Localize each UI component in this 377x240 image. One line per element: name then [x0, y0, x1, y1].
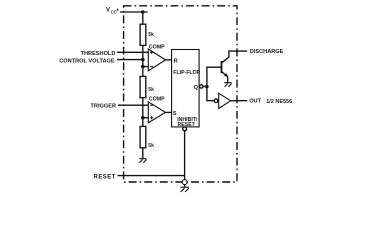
svg-text:COMP: COMP — [149, 96, 165, 102]
transistor Q1 base bar — [221, 61, 223, 73]
svg-text:R: R — [174, 58, 178, 64]
junction comparator 1 minus tap — [141, 65, 145, 69]
wire R1 to R2 — [142, 45, 144, 76]
wire GND pin to ground — [184, 185, 186, 188]
wire TRIGGER to comparator 2 — [118, 104, 148, 106]
svg-text:FLIP-FLOP: FLIP-FLOP — [173, 70, 200, 76]
plus mark comparator 2 — [150, 116, 153, 119]
svg-text:OUT: OUT — [249, 99, 261, 105]
wire R3 to ground — [142, 148, 144, 159]
svg-text:*: * — [116, 9, 119, 15]
svg-text:1/2 NE556: 1/2 NE556 — [266, 99, 292, 105]
minus mark comparator 1 — [150, 66, 153, 68]
wire Q to output buffer — [207, 87, 214, 101]
op-amp comparator 2 (trigger) — [148, 102, 165, 123]
inverter output buffer — [219, 93, 231, 108]
svg-text:RESET: RESET — [178, 122, 196, 128]
wire VCC — [120, 11, 148, 13]
resistor R2 5k — [140, 76, 146, 97]
inverter output buffer bubble — [214, 99, 218, 103]
transistor Q1 collector — [222, 51, 248, 63]
junction comparator 2 plus tap — [141, 116, 145, 120]
wire Q to transistor base — [207, 67, 222, 86]
terminal GND pin circle — [182, 180, 187, 185]
wire OUT — [231, 100, 248, 102]
arrowhead emitter — [224, 73, 228, 77]
op-amp comparator 1 (threshold) — [148, 49, 165, 71]
svg-text:THRESHOLD: THRESHOLD — [81, 51, 116, 57]
svg-text:5k: 5k — [148, 32, 154, 38]
svg-text:CONTROL VOLTAGE: CONTROL VOLTAGE — [59, 59, 115, 65]
wire RESET pin — [118, 175, 185, 177]
ground below R3 — [139, 159, 146, 163]
svg-text:COMP: COMP — [149, 44, 165, 50]
wire divider to comparator 2 plus input — [143, 117, 149, 119]
wire VCC to R1 — [142, 12, 144, 24]
wire CONTROL VOLTAGE to divider node — [117, 59, 143, 61]
ground GND pin — [180, 187, 189, 192]
bubble flip-flop reset input — [183, 127, 187, 131]
junction VCC node — [141, 10, 145, 14]
wire reset vertical — [184, 131, 186, 180]
wire divider to comparator 1 inverting input — [143, 66, 149, 68]
svg-text:DISCHARGE: DISCHARGE — [250, 49, 284, 55]
wire comparator 2 output to S input — [165, 111, 171, 113]
svg-text:5k: 5k — [148, 143, 154, 149]
junction control-voltage node — [141, 58, 145, 62]
wire Q output — [203, 86, 207, 88]
wire THRESHOLD to comparator — [117, 51, 148, 53]
ground emitter — [224, 83, 232, 87]
svg-text:V: V — [106, 8, 110, 14]
package boundary (1/2 NE556 dash-dot box) — [124, 6, 237, 182]
plus mark comparator 1 — [150, 51, 153, 54]
svg-text:RESET: RESET — [94, 174, 116, 180]
minus mark comparator 2 — [150, 104, 153, 106]
bubble Q output — [200, 85, 203, 88]
transistor Q1 emitter — [222, 72, 228, 83]
resistor R3 5k — [140, 126, 146, 147]
node VCC label — [106, 8, 119, 15]
wire R2 to R3 — [142, 98, 144, 127]
wire comparator 1 output to R input — [166, 59, 172, 61]
flip-flop U1 box — [172, 50, 200, 127]
svg-text:TRIGGER: TRIGGER — [91, 103, 116, 109]
junction Q node — [205, 85, 209, 89]
svg-text:Q: Q — [194, 85, 199, 91]
svg-text:5k: 5k — [148, 87, 154, 93]
svg-text:S: S — [173, 111, 177, 117]
resistor R1 5k — [140, 24, 146, 45]
